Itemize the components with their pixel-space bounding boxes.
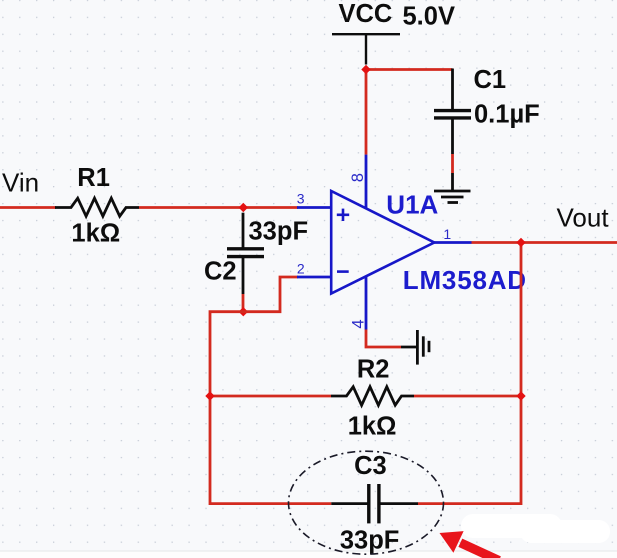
junction R2 right: [516, 391, 525, 400]
resistor R2: [331, 387, 414, 405]
svg-text:U1A: U1A: [386, 190, 438, 220]
junction R2 left: [205, 391, 214, 400]
junction C2/feedback node: [239, 307, 248, 316]
wire VCC junction to C1: [366, 68, 453, 71]
svg-text:3: 3: [297, 191, 305, 207]
svg-text:C1: C1: [474, 66, 507, 94]
wire junction left to vertical: [210, 312, 331, 504]
annotation arrow: [440, 531, 501, 558]
svg-text:VCC: VCC: [339, 0, 393, 28]
svg-text:8: 8: [349, 173, 367, 182]
ground below C1: [434, 191, 471, 203]
capacitor C2: [227, 213, 264, 294]
svg-text:LM358AD: LM358AD: [403, 265, 527, 295]
wire R1 to junction: [139, 206, 298, 209]
wire C2 bottom to junction: [242, 294, 245, 313]
svg-text:Vin: Vin: [2, 168, 39, 198]
wire VCC down to pin 8 (red): [365, 68, 368, 155]
svg-text:R1: R1: [77, 164, 110, 192]
white patch: [461, 514, 610, 543]
svg-text:33pF: 33pF: [340, 527, 400, 555]
wire pin 2 (blue): [297, 276, 332, 279]
resistor R1: [55, 198, 139, 216]
highlight ellipse around C3: [289, 451, 444, 554]
svg-text:R2: R2: [357, 356, 390, 384]
svg-text:Vout: Vout: [557, 203, 610, 233]
op-amp U1A: [331, 191, 434, 294]
ground at pin 4 (rotated): [401, 330, 429, 365]
wire pin 8 (blue): [365, 155, 368, 209]
wire R2 row left: [210, 395, 331, 398]
wire output to Vout: [472, 241, 617, 244]
svg-text:33pF: 33pF: [249, 218, 309, 246]
svg-text:2: 2: [297, 261, 305, 277]
wire R2 row right: [414, 395, 521, 398]
svg-text:1kΩ: 1kΩ: [348, 413, 397, 441]
wire Vin to R1: [0, 206, 56, 209]
wire pin 4 (blue): [365, 277, 368, 330]
junction output node: [516, 238, 525, 247]
wire output down feedback: [418, 243, 521, 504]
junction VCC node: [361, 65, 370, 74]
wire pin 3 (blue): [297, 206, 332, 209]
svg-text:1kΩ: 1kΩ: [71, 220, 120, 248]
svg-text:C3: C3: [354, 452, 387, 480]
capacitor C1: [434, 69, 471, 192]
power symbol VCC: [332, 34, 400, 64]
junction R1/C2 node: [239, 203, 248, 212]
svg-text:C2: C2: [204, 257, 237, 285]
wire junction to pin 2: [243, 277, 298, 312]
capacitor C3: [331, 484, 418, 523]
svg-text:1: 1: [443, 226, 451, 242]
svg-text:5.0V: 5.0V: [403, 3, 455, 31]
wire pin 4 to ground (red): [366, 330, 401, 348]
wire pin 1 output (blue): [434, 241, 471, 244]
svg-text:0.1µF: 0.1µF: [474, 101, 540, 129]
